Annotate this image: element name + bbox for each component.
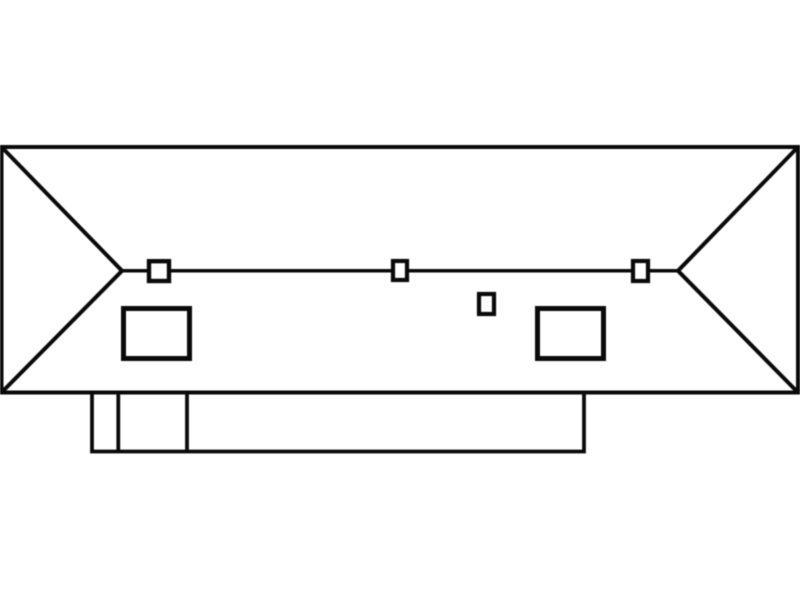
extension divider right: [185, 393, 189, 452]
chimney square left on ridge: [149, 261, 169, 281]
small vent square below ridge: [479, 294, 494, 314]
skylight rectangle left: [124, 309, 190, 359]
hip line bottom-right: [678, 271, 798, 393]
roof outline (eaves rectangle): [2, 147, 799, 393]
skylight rectangle right: [538, 309, 604, 359]
chimney square right on ridge: [633, 261, 648, 281]
extension divider left: [116, 393, 120, 452]
ridge line: [122, 269, 678, 273]
hip line bottom-left: [2, 271, 123, 393]
hip line top-right: [678, 147, 798, 271]
hip line top-left: [2, 147, 123, 271]
lower extension outline: [92, 393, 584, 452]
chimney square middle on ridge: [393, 261, 407, 280]
